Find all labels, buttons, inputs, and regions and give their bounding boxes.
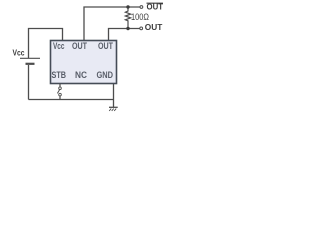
resistor R1 100ohm (125, 7, 130, 29)
wire: bottom rail (29, 99, 114, 101)
node junction bottom (R1 to OUT rail) (126, 27, 129, 30)
svg-text:Vcc: Vcc (13, 48, 25, 58)
wire: battery positive up and over to Vcc pin (29, 29, 63, 59)
switch S1 (standby, open) (57, 87, 61, 96)
svg-text:100Ω: 100Ω (131, 12, 149, 22)
svg-text:OUT: OUT (72, 41, 87, 51)
wire: GND pin down to ground (113, 84, 115, 108)
svg-text:OUT: OUT (98, 41, 113, 51)
wire: OUT pin1 up and right to OUT-bar terminal (84, 7, 140, 41)
ground symbol (109, 107, 118, 111)
node junction top (R1 to OUT-bar rail) (126, 5, 129, 8)
svg-text:OUT: OUT (145, 23, 163, 32)
svg-text:NC: NC (75, 70, 87, 80)
svg-text:GND: GND (97, 70, 114, 80)
terminal OUT (open circle) (140, 27, 143, 30)
svg-text:STB: STB (52, 70, 67, 80)
wire: STB pin stub down to switch (59, 84, 61, 87)
IC U1 body (51, 41, 117, 84)
wire: switch to bottom rail (59, 96, 61, 100)
battery V1 (Vcc supply) (20, 58, 40, 64)
wire: battery negative down to bottom rail (28, 65, 30, 100)
terminal OUT-bar (open circle) (140, 6, 143, 9)
wire: OUT pin2 up and right to OUT terminal (109, 29, 140, 41)
svg-text:Vcc: Vcc (53, 41, 65, 51)
